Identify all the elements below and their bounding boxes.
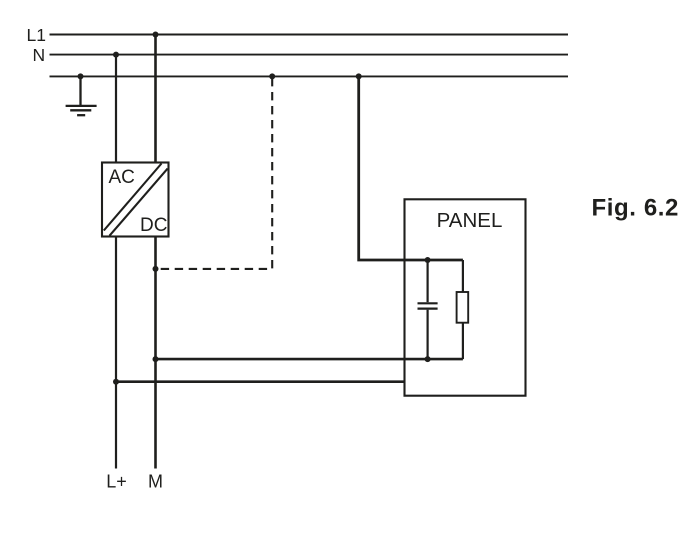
node capacitor bottom junction <box>425 356 431 362</box>
node PE ground junction <box>78 73 84 79</box>
wire L1 line <box>50 34 569 36</box>
wire L+ feed to panel <box>116 380 405 383</box>
svg-text:DC: DC <box>140 215 167 236</box>
node capacitor top junction <box>425 257 431 263</box>
capacitor C1 <box>418 260 438 359</box>
panel enclosure <box>405 199 526 395</box>
wire PE line <box>50 75 569 77</box>
wire N drop to AC input <box>115 55 117 163</box>
node PE panel tap <box>356 73 362 79</box>
node L1 tap <box>153 32 159 38</box>
wire PE dashed bond to M <box>157 78 272 269</box>
resistor R1 <box>457 292 469 323</box>
svg-text:Fig. 6.2: Fig. 6.2 <box>592 195 680 222</box>
wire L+ output <box>115 237 117 469</box>
wire L1 drop to AC input <box>154 35 157 163</box>
wire N line <box>50 54 569 56</box>
svg-text:M: M <box>148 472 163 492</box>
svg-text:L1: L1 <box>27 25 46 45</box>
wire M return from panel <box>156 358 463 361</box>
wire PE feed to panel <box>359 76 463 260</box>
svg-text:L+: L+ <box>106 472 127 492</box>
ground <box>66 76 97 115</box>
power supply U1 AC/DC converter <box>102 163 169 237</box>
node M return junction <box>153 356 159 362</box>
svg-text:N: N <box>33 45 46 65</box>
node M dashed junction <box>153 266 159 272</box>
wire resistor branch <box>462 260 464 359</box>
node N tap <box>113 52 119 58</box>
node PE dashed tap <box>269 73 275 79</box>
wire M output <box>154 237 157 469</box>
node L+ junction <box>113 379 119 385</box>
svg-text:PANEL: PANEL <box>437 209 503 232</box>
svg-text:AC: AC <box>109 167 135 188</box>
